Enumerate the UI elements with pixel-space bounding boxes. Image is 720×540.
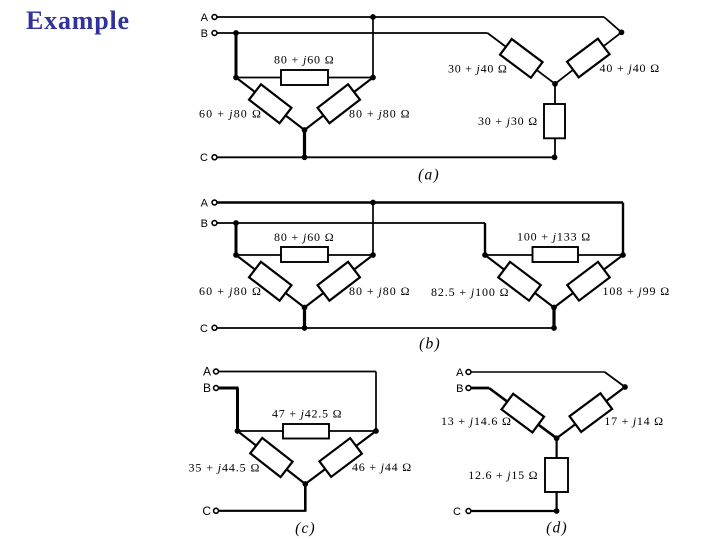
svg-text:B: B [201,28,208,40]
svg-text:108 + j99 Ω: 108 + j99 Ω [603,284,670,298]
svg-text:B: B [456,383,463,395]
svg-text:82.5 + j100 Ω: 82.5 + j100 Ω [431,285,509,299]
svg-text:40 + j40 Ω: 40 + j40 Ω [600,61,661,75]
svg-text:A: A [201,198,209,210]
svg-text:100 + j133 Ω: 100 + j133 Ω [517,230,591,244]
svg-text:(a): (a) [418,167,440,184]
svg-text:A: A [456,367,464,379]
svg-text:A: A [203,365,211,379]
svg-text:B: B [203,381,211,395]
svg-text:C: C [200,323,208,335]
svg-text:13 + j14.6 Ω: 13 + j14.6 Ω [441,414,512,428]
svg-text:(d): (d) [546,520,568,537]
svg-text:C: C [202,504,211,518]
svg-text:46 + j44 Ω: 46 + j44 Ω [352,460,412,474]
svg-text:30 + j40 Ω: 30 + j40 Ω [448,61,508,75]
svg-text:80 + j80 Ω: 80 + j80 Ω [349,284,410,298]
svg-text:60 + j80 Ω: 60 + j80 Ω [199,107,262,121]
svg-text:12.6 + j15 Ω: 12.6 + j15 Ω [468,468,538,482]
svg-text:47 + j42.5 Ω: 47 + j42.5 Ω [272,407,342,421]
svg-text:B: B [201,218,208,230]
svg-text:C: C [453,506,461,518]
svg-text:80 + j60 Ω: 80 + j60 Ω [274,230,335,244]
svg-text:C: C [200,152,208,164]
svg-text:30 + j30 Ω: 30 + j30 Ω [478,114,538,128]
svg-text:80 + j60 Ω: 80 + j60 Ω [274,53,335,67]
svg-text:17 + j14 Ω: 17 + j14 Ω [604,414,663,428]
svg-text:80 + j80 Ω: 80 + j80 Ω [349,107,410,121]
svg-text:35 + j44.5 Ω: 35 + j44.5 Ω [189,461,261,475]
svg-text:(b): (b) [419,336,441,353]
svg-text:60 + j80 Ω: 60 + j80 Ω [199,284,262,298]
svg-text:(c): (c) [295,520,316,537]
svg-text:A: A [201,12,209,24]
